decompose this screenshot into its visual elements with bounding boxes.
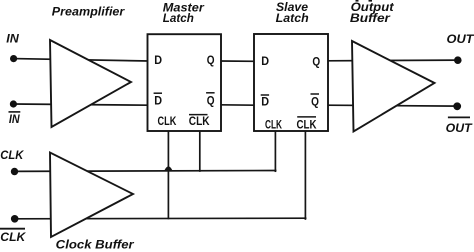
wire slave CLK vertical: [274, 130, 276, 171]
wire master CLKbar stub: [199, 130, 201, 171]
node OUTbar: [453, 102, 461, 110]
wire slave CLKbar vertical: [304, 130, 306, 219]
label CLKbar: [0, 229, 27, 244]
wire slave Qbar to OUTbar: [327, 104, 457, 107]
wire slave Q to OUT: [327, 59, 458, 62]
svg-text:CLK: CLK: [297, 119, 318, 132]
slave latch U2 box: [254, 34, 328, 131]
label OUTbar: [446, 117, 474, 135]
node INbar: [10, 100, 17, 107]
label Slave Latch: [276, 0, 309, 25]
svg-text:CLK: CLK: [189, 115, 210, 128]
wire CLKbar line to slave CLKbar (horizontal): [15, 217, 306, 220]
node OUT: [454, 56, 462, 64]
svg-text:CLK: CLK: [0, 148, 24, 162]
node CLK: [11, 168, 18, 175]
master pin CLKbar: [189, 115, 210, 128]
master pin Qbar: [206, 93, 215, 108]
svg-text:D: D: [261, 55, 269, 68]
slave pin Dbar: [261, 95, 269, 108]
svg-text:D: D: [154, 54, 162, 67]
svg-text:CLK: CLK: [158, 115, 177, 128]
svg-text:Preamplifier: Preamplifier: [52, 5, 126, 19]
wire master Qbar to slave Dbar: [220, 104, 255, 106]
svg-text:Buffer: Buffer: [350, 11, 392, 25]
clock buffer A2: [50, 153, 133, 238]
output buffer A3: [352, 41, 435, 132]
svg-text:CLK: CLK: [265, 119, 282, 132]
wire INbar to master Dbar: [13, 104, 148, 105]
svg-text:IN: IN: [9, 112, 20, 126]
master pin Dbar: [154, 93, 162, 107]
wire master CLK stub down to CLKbar line: [167, 130, 169, 218]
node IN: [10, 55, 17, 62]
svg-text:CLK: CLK: [0, 230, 26, 244]
svg-text:D: D: [261, 95, 269, 108]
svg-text:Q: Q: [311, 95, 319, 108]
wire CLK line to slave CLK (horizontal): [15, 170, 276, 173]
slave pin Qbar: [311, 94, 320, 108]
wire IN to master D: [14, 59, 148, 61]
svg-text:OUT: OUT: [447, 32, 474, 46]
label INbar: [9, 112, 21, 126]
wire master Q to slave D: [220, 60, 255, 62]
preamplifier A1: [50, 40, 131, 127]
svg-text:Clock Buffer: Clock Buffer: [56, 237, 135, 251]
label Master Latch: [163, 0, 205, 25]
svg-text:Q: Q: [207, 54, 215, 67]
svg-text:D: D: [154, 94, 162, 107]
svg-text:Q: Q: [207, 95, 215, 108]
master latch U1 box: [148, 34, 222, 131]
svg-text:OUT: OUT: [446, 121, 474, 135]
node CLKbar: [11, 215, 19, 223]
slave pin CLKbar: [297, 117, 318, 132]
svg-text:IN: IN: [6, 32, 19, 46]
svg-text:Latch: Latch: [276, 11, 309, 25]
label Output Buffer: [350, 0, 395, 25]
svg-text:Latch: Latch: [163, 11, 194, 25]
svg-text:Q: Q: [312, 55, 320, 68]
crossover hop on master CLK stub: [165, 167, 172, 171]
